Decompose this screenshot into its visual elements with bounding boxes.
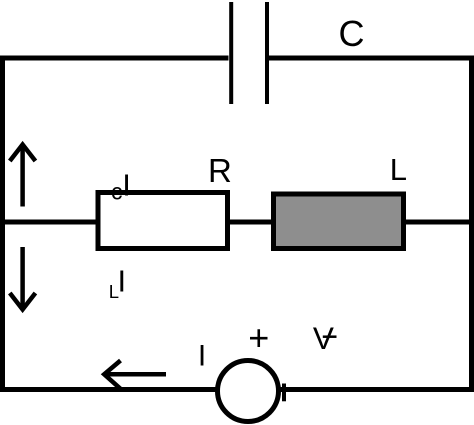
svg-text:C: C: [339, 13, 365, 54]
svg-text:R: R: [208, 152, 232, 189]
svg-text:I: I: [122, 167, 131, 202]
svg-text:I: I: [118, 264, 127, 299]
svg-text:I: I: [198, 339, 206, 372]
svg-text:L: L: [390, 152, 407, 187]
svg-text:+: +: [248, 317, 269, 358]
svg-text:c: c: [111, 179, 123, 205]
svg-text:V: V: [313, 320, 334, 356]
